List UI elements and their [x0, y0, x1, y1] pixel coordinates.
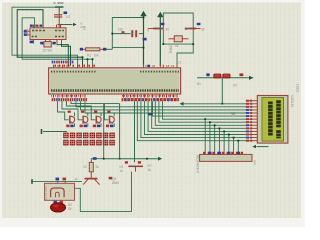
svg-text:31: 31 [152, 64, 156, 68]
svg-text:10k: 10k [94, 54, 100, 58]
ic U1 top pin stubs group2 [77, 65, 79, 68]
svg-text:U1: U1 [177, 61, 181, 65]
diode D2 body [223, 74, 230, 78]
label blue on control wire [149, 113, 152, 115]
label C3 [143, 38, 147, 41]
wire W3 U2 pin to MCU pin [22, 18, 92, 66]
svg-text:X1: X1 [175, 44, 179, 48]
svg-text:32768: 32768 [43, 49, 52, 53]
label R1 pin right [103, 48, 106, 51]
pushbutton K1 terminals [125, 161, 128, 163]
crystal X1 12MHz body [174, 36, 182, 42]
wire stub to MCU pin [87, 59, 89, 66]
ground symbol (grey) [231, 112, 237, 114]
wire LCD pin3 VEE [76, 101, 253, 107]
svg-text:RP1: RP1 [253, 160, 257, 166]
wire reset loop left [112, 18, 143, 50]
wire branch to alarm line [119, 104, 121, 159]
wire osc bottom rail [163, 43, 193, 45]
resistor R1 body [86, 48, 100, 51]
capacitor C2 plates [185, 28, 196, 30]
wire W1 VCC rail to MCU P1 pin [12, 7, 78, 66]
node dot branch [119, 158, 121, 160]
wire battery to VDD bus [221, 78, 223, 103]
svg-text:18: 18 [120, 169, 124, 173]
transistor Q3 [95, 116, 97, 124]
power symbol VCC arrow 2 [157, 12, 163, 17]
label C6 value [64, 12, 68, 15]
diode D1 body [214, 74, 221, 78]
lcd screen [262, 98, 284, 142]
wire LCD pin5 RW [85, 101, 253, 113]
pin labels U1 top (net-label text) [52, 61, 54, 64]
wire VCC to U2 [58, 11, 60, 28]
ic U1 top pin stubs group1 [53, 65, 55, 68]
wire MCU to R6 [91, 104, 103, 163]
node junction dots on staircase [82, 56, 84, 58]
pin labels U2 top (blue/red) [30, 25, 33, 27]
connector RP1 body [200, 154, 252, 161]
wire MCU pin to Q3 [67, 101, 96, 120]
svg-text:LCD1: LCD1 [296, 84, 300, 93]
crystal X2 32768Hz [44, 42, 51, 47]
svg-text:12MHz: 12MHz [169, 43, 173, 54]
terminal arrow alarm [158, 157, 162, 161]
svg-text:30: 30 [201, 28, 205, 32]
label X2 right [52, 42, 55, 45]
transistor Q2 [82, 116, 84, 124]
wire LCD pin1 VSS stub [249, 100, 254, 102]
buzzer red dome [50, 203, 65, 212]
node dots on data lines [204, 118, 206, 120]
label R1 pin left [80, 48, 83, 51]
ic U2 top pins [33, 25, 35, 28]
svg-text:2k: 2k [75, 177, 79, 181]
wire battery chain [197, 77, 249, 79]
annotation text (red) under Q1 [63, 133, 68, 139]
lcd text line1 time [276, 100, 281, 127]
lcd pin stubs (14) [253, 100, 258, 102]
svg-text:B1: B1 [197, 82, 201, 86]
label LS1 labels above [56, 178, 60, 181]
ic U1 bottom pin stubs left group [53, 94, 55, 98]
svg-text:U2: U2 [66, 15, 70, 19]
svg-text:18: 18 [166, 64, 170, 68]
svg-text:C2: C2 [184, 27, 188, 31]
annotation text (red) under Q4 [103, 133, 108, 139]
capacitor C1 plates [153, 28, 163, 30]
label R6 top [93, 157, 97, 160]
lcd text line2 date [268, 102, 273, 137]
wire VDD bus to LCD pin2 [184, 103, 254, 105]
svg-text:10: 10 [83, 165, 87, 169]
crystal X1 stubs [169, 38, 175, 40]
capacitor C3 electrolytic [112, 33, 130, 35]
ic U1 bottom pin stubs right group [152, 94, 154, 98]
transistor Q5 emitter diagonal [83, 179, 88, 184]
ic U1 pin names top row (inside) [51, 71, 96, 73]
wire alarm out [104, 158, 161, 160]
wire W2 U2 pin to MCU pin [17, 10, 82, 66]
svg-text:LM016L: LM016L [290, 96, 294, 108]
labels below sounder [54, 201, 57, 204]
label C1 [161, 23, 165, 25]
node dot alarm [103, 158, 105, 160]
transistor Q4 [109, 116, 111, 124]
transistor Q5 base bar [85, 178, 98, 180]
wire button feed [134, 101, 136, 162]
capacitor C6 inline plates [54, 14, 62, 16]
wire osc loop [163, 13, 193, 66]
pushbutton K1 bar [128, 165, 143, 167]
power rail symbol VCC [55, 6, 64, 8]
wire sounder to button net [75, 172, 132, 212]
wire LCD pin4 RS [81, 101, 254, 110]
wire resistor-pack taps [204, 119, 206, 151]
ic U1 AT89C52 body [49, 68, 181, 94]
power symbol VCC arrow 1 [140, 11, 146, 16]
transistor Q5 collector diagonal [95, 179, 100, 184]
pin labels U1 bottom (red net-label text row) [52, 98, 54, 101]
wire data bus D0-D7 fan (MCU P0 to LCD) [137, 101, 253, 140]
annotation text (red) under Q3 [90, 133, 95, 139]
pin numbers U1 top left (red marks) [55, 65, 56, 67]
ic U2 left pins with labels [28, 30, 31, 32]
wire U2 output to terminal [58, 24, 73, 26]
terminal arrow VDD bus [180, 102, 184, 106]
node dots osc [162, 43, 164, 45]
svg-text:22u: 22u [118, 28, 124, 32]
wire MCU pin to Q2 [62, 101, 82, 120]
wire U2 bottom pins to MCU [62, 44, 71, 66]
svg-text:q: q [147, 28, 149, 32]
svg-text:RESPACK-8: RESPACK-8 [196, 155, 200, 173]
svg-text:C_VCC: C_VCC [54, 1, 65, 5]
lcd pin labels (numbers and names) [250, 100, 252, 102]
svg-text:19: 19 [171, 64, 175, 68]
sounder pin stubs [57, 181, 59, 183]
ic U1 top pin stubs right [143, 65, 145, 68]
svg-text:R9: R9 [82, 26, 86, 30]
connector pin stubs [204, 152, 206, 155]
resistor R6 body [89, 162, 93, 171]
wire reset bottom [112, 47, 143, 49]
label C2 [197, 23, 201, 25]
svg-text:30: 30 [166, 28, 170, 32]
node dots reset [143, 17, 145, 19]
label battery right [240, 73, 244, 76]
ic U1 bottom pin stubs middle group [123, 94, 125, 98]
ic U2 DS1302 body [30, 28, 66, 40]
pin label RST blue speck [147, 65, 150, 67]
ic U1 pin names bottom row (inside) [51, 89, 179, 92]
wire MCU pin to Q4 [71, 101, 120, 103]
svg-text:2k: 2k [96, 165, 100, 169]
ic U2 pin name text (inside top) [32, 30, 46, 32]
svg-text:SPEAKER: SPEAKER [43, 186, 47, 202]
wire R6 to Q5 [90, 172, 92, 178]
svg-text:1k: 1k [148, 168, 152, 172]
ic U2 bottom-right pin stubs [56, 40, 58, 44]
terminal arrow right [249, 76, 254, 80]
svg-text:8550: 8550 [112, 181, 119, 185]
label battery left [206, 73, 209, 76]
sounder LS1 inner coil [51, 188, 65, 197]
lcd LCD1 body [257, 96, 288, 144]
pin numbers U1 bottom (dark red rows) [51, 95, 87, 97]
terminal input left [41, 129, 43, 134]
wire R1 to reset rail [106, 48, 112, 50]
svg-text:R1: R1 [87, 54, 91, 58]
transistor Q1 [69, 116, 71, 124]
terminal arrow (U2 right) [73, 23, 77, 26]
label X2 left [40, 42, 43, 45]
wire LCD pin6 E [153, 101, 254, 116]
wire MCU pin to Q1 [58, 101, 69, 120]
node dot VDD/battery [221, 103, 223, 105]
annotation text (red) under Q2 [76, 133, 81, 139]
sounder LS1 body [45, 183, 75, 200]
label Q5 red [109, 177, 113, 180]
ic U2 pin name text (inside bottom) [32, 36, 38, 38]
wire below LCD with arrow [252, 145, 256, 148]
ic U2 bottom pins to crystal [45, 40, 47, 42]
connector pin labels [203, 152, 243, 155]
ic U2 bottom pin [33, 40, 35, 44]
terminal input buzzer [31, 179, 33, 184]
